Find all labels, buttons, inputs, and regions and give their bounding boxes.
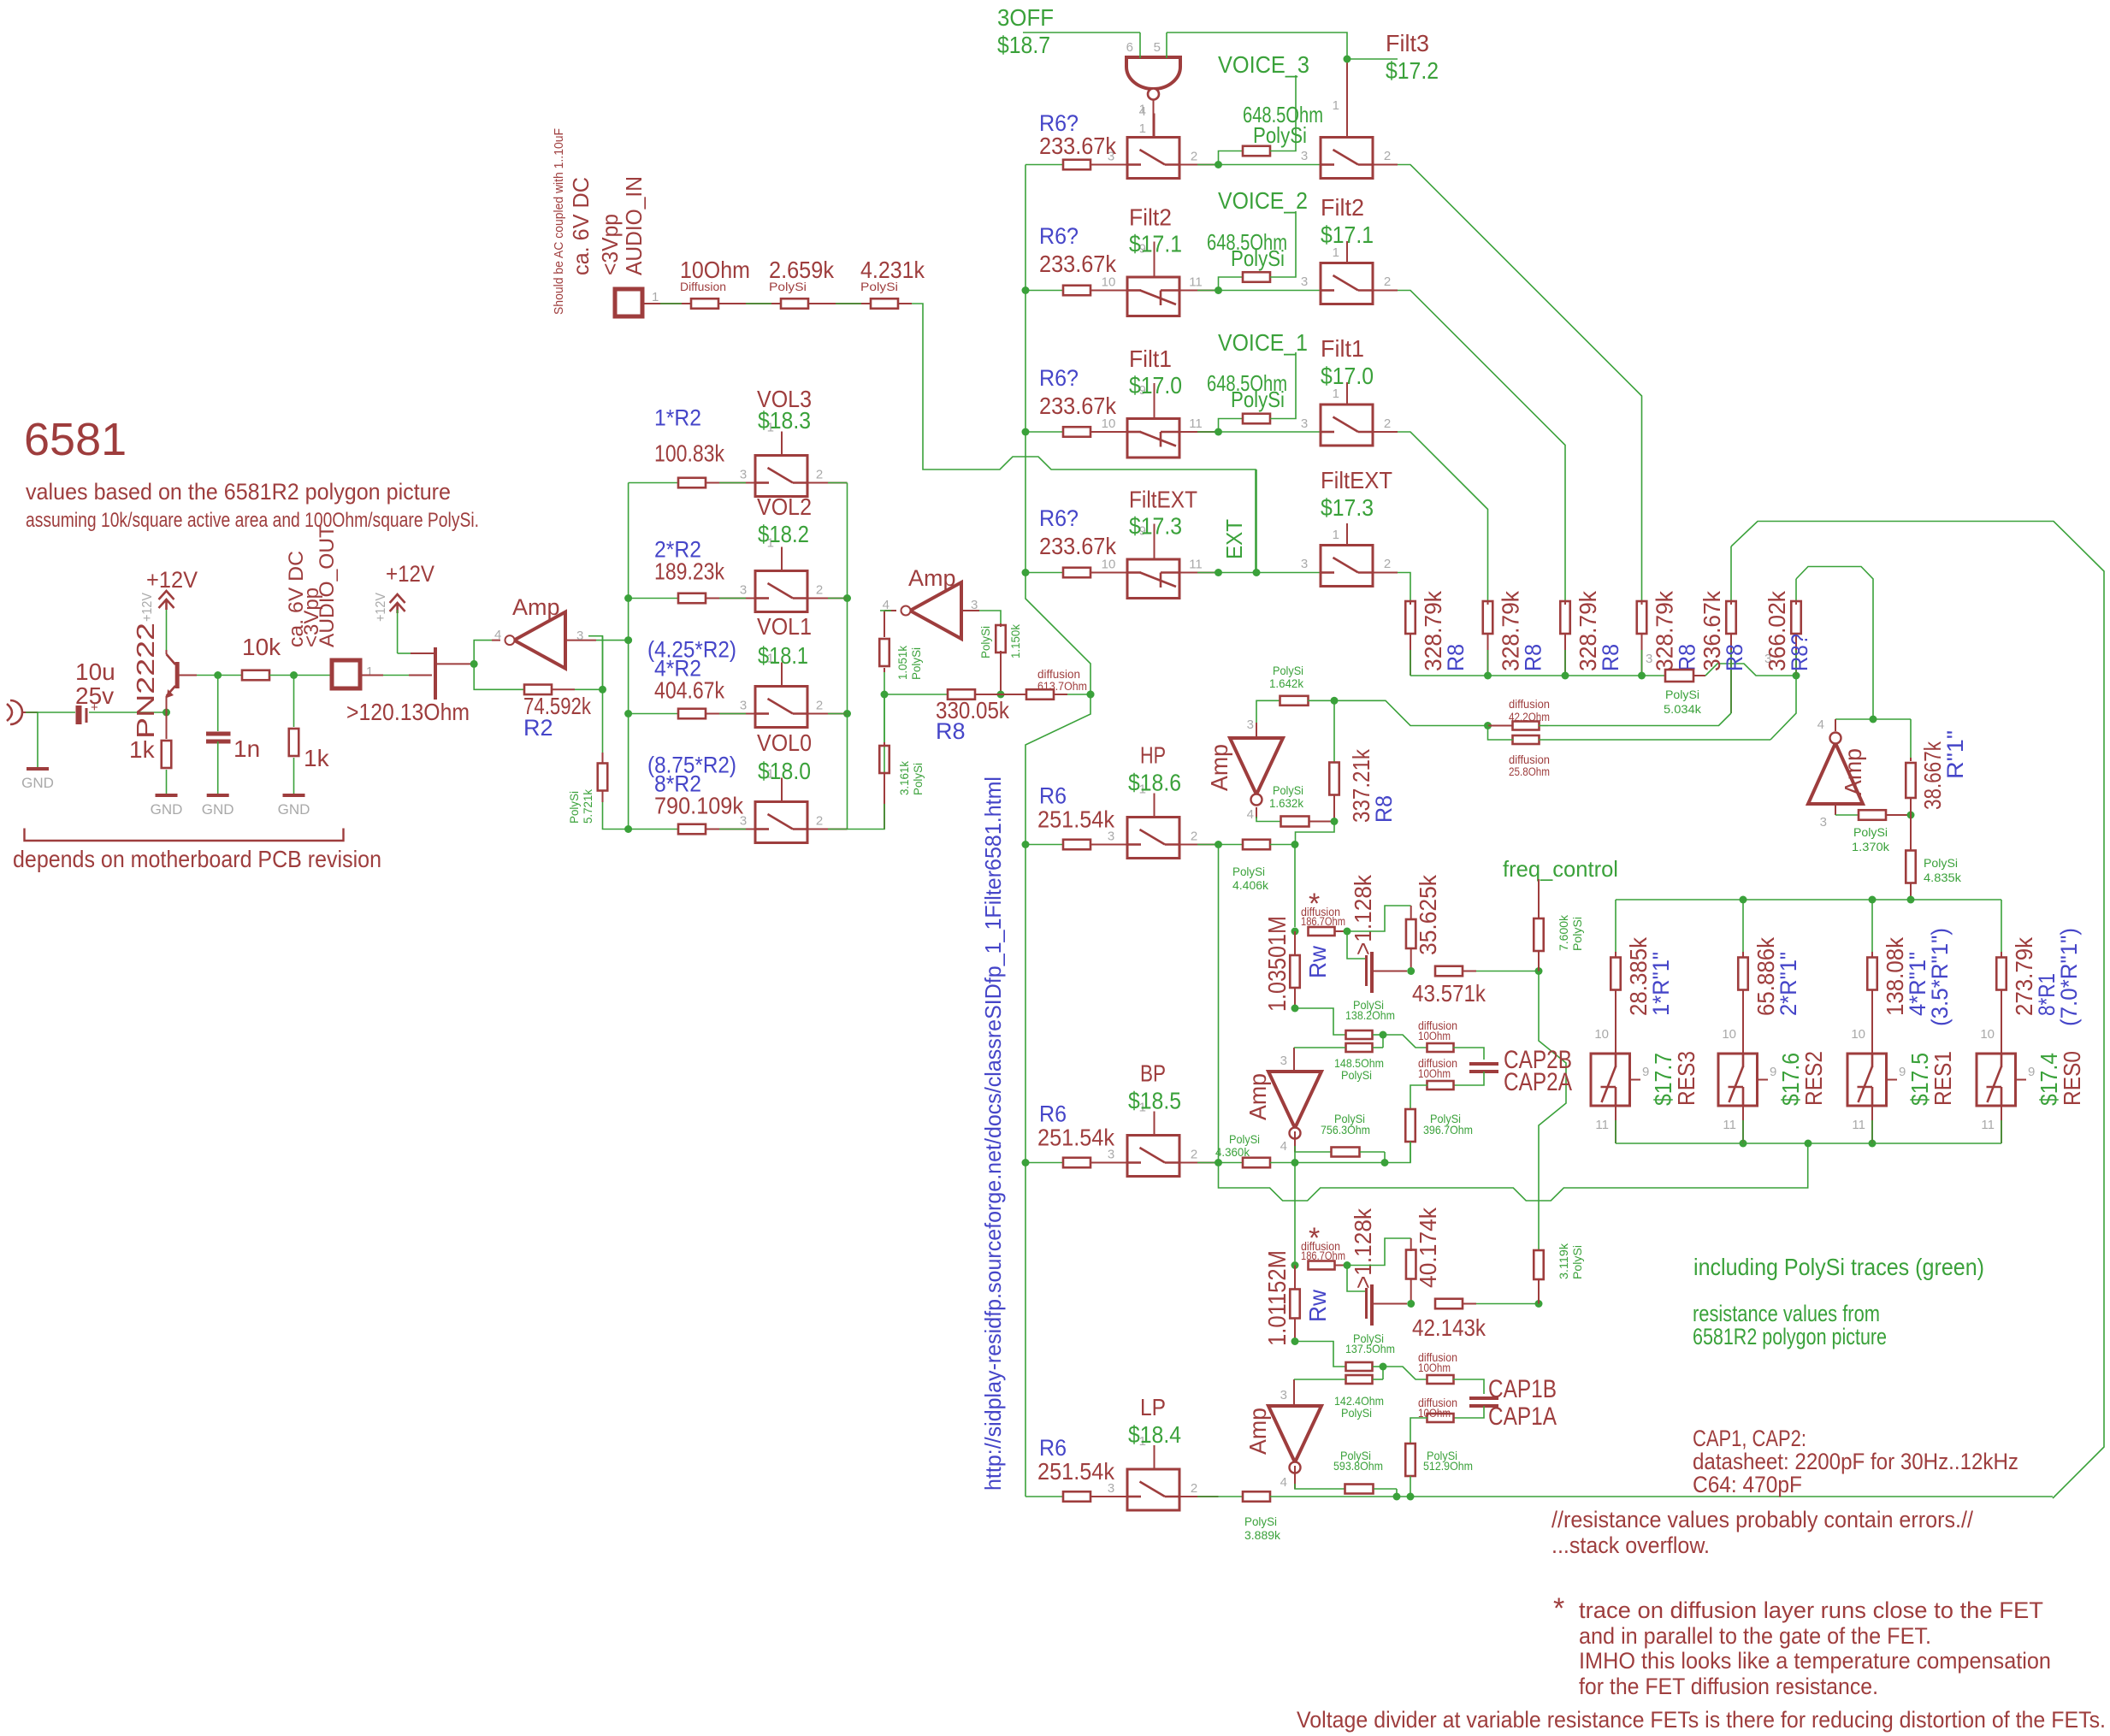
svg-text:$17.3: $17.3 xyxy=(1321,494,1374,521)
svg-text:3: 3 xyxy=(1301,275,1308,289)
svg-text:PolySi: PolySi xyxy=(1253,122,1307,148)
svg-text:Amp: Amp xyxy=(1244,1073,1271,1120)
svg-text:PolySi: PolySi xyxy=(1341,1068,1372,1082)
svg-text:2*R"1": 2*R"1" xyxy=(1776,952,1801,1016)
svg-text:1: 1 xyxy=(652,290,659,304)
svg-text:10Ohm: 10Ohm xyxy=(680,257,750,283)
svg-text:Amp: Amp xyxy=(1244,1408,1271,1455)
svg-text:R6?: R6? xyxy=(1039,505,1079,531)
svg-text:25.8Ohm: 25.8Ohm xyxy=(1509,765,1550,778)
svg-text:9: 9 xyxy=(1642,1065,1649,1079)
svg-text:5.721k: 5.721k xyxy=(581,788,594,824)
svg-text:3: 3 xyxy=(1301,416,1308,431)
svg-text:PN2222: PN2222 xyxy=(133,623,160,739)
svg-text:$17.0: $17.0 xyxy=(1129,372,1182,399)
svg-text:PolySi: PolySi xyxy=(1570,1245,1584,1279)
svg-text:10Ohm: 10Ohm xyxy=(1418,1067,1451,1080)
svg-text:2: 2 xyxy=(816,583,823,598)
svg-text:9: 9 xyxy=(1899,1065,1906,1079)
svg-text:values based on the 6581R2 pol: values based on the 6581R2 polygon pictu… xyxy=(26,479,451,505)
svg-text:R8?: R8? xyxy=(1787,634,1812,671)
svg-text:trace on diffusion layer runs: trace on diffusion layer runs close to t… xyxy=(1579,1597,2043,1623)
svg-text:$18.6: $18.6 xyxy=(1128,770,1181,796)
svg-text:3.119k: 3.119k xyxy=(1557,1243,1570,1279)
svg-text:GND: GND xyxy=(21,775,54,791)
svg-text:including PolySi traces (green: including PolySi traces (green) xyxy=(1693,1254,1984,1280)
svg-text:$17.0: $17.0 xyxy=(1321,363,1374,389)
svg-text:10: 10 xyxy=(1980,1027,1995,1042)
svg-text:2: 2 xyxy=(816,814,823,829)
svg-text:4: 4 xyxy=(883,598,890,612)
svg-text:AUDIO_OUT: AUDIO_OUT xyxy=(316,525,339,647)
svg-text:1.632k: 1.632k xyxy=(1269,796,1304,810)
svg-text:$18.5: $18.5 xyxy=(1128,1088,1181,1114)
svg-text:R8: R8 xyxy=(1521,644,1546,671)
svg-text:138.2Ohm: 138.2Ohm xyxy=(1345,1008,1395,1022)
svg-text:PolySi: PolySi xyxy=(1244,1515,1277,1528)
svg-text:PolySi: PolySi xyxy=(1570,917,1584,951)
svg-text:11: 11 xyxy=(1189,275,1203,290)
svg-text:R6?: R6? xyxy=(1039,365,1079,391)
svg-text:233.67k: 233.67k xyxy=(1039,133,1117,159)
svg-text:RES2: RES2 xyxy=(1800,1051,1827,1106)
svg-text:and in parallel to the gate of: and in parallel to the gate of the FET. xyxy=(1579,1623,1931,1649)
svg-text:datasheet: 2200pF for 30Hz..12: datasheet: 2200pF for 30Hz..12kHz xyxy=(1693,1449,2018,1474)
svg-text:3: 3 xyxy=(740,583,747,598)
svg-text:42.143k: 42.143k xyxy=(1412,1314,1486,1341)
svg-text:233.67k: 233.67k xyxy=(1039,533,1117,559)
svg-text:depends on motherboard PCB rev: depends on motherboard PCB revision xyxy=(13,846,381,872)
svg-text:PolySi: PolySi xyxy=(911,763,925,795)
svg-text:LP: LP xyxy=(1140,1394,1166,1420)
svg-text:3: 3 xyxy=(971,598,978,612)
svg-text:1: 1 xyxy=(366,664,373,679)
svg-text:Filt3: Filt3 xyxy=(1386,30,1429,56)
svg-text:Filt1: Filt1 xyxy=(1321,335,1364,362)
svg-text:R6: R6 xyxy=(1039,1435,1067,1461)
svg-text:PolySi: PolySi xyxy=(1273,783,1303,797)
svg-text:IMHO this looks like a tempera: IMHO this looks like a temperature compe… xyxy=(1579,1648,2051,1674)
svg-text:CAP1A: CAP1A xyxy=(1488,1402,1557,1431)
svg-text:11: 11 xyxy=(1189,558,1203,572)
svg-text:3: 3 xyxy=(1280,1388,1287,1402)
svg-text:2: 2 xyxy=(816,468,823,482)
svg-text:1: 1 xyxy=(1139,121,1146,136)
svg-text:4.360k: 4.360k xyxy=(1215,1145,1250,1159)
svg-text:2: 2 xyxy=(1191,830,1197,844)
svg-text:$17.3: $17.3 xyxy=(1129,513,1182,540)
svg-text:3: 3 xyxy=(740,468,747,482)
svg-text:$18.1: $18.1 xyxy=(758,642,808,669)
svg-text:+12V: +12V xyxy=(146,567,198,593)
svg-text:(3.5*R"1"): (3.5*R"1") xyxy=(1927,928,1953,1026)
svg-text:*: * xyxy=(1553,1592,1564,1625)
svg-text:5: 5 xyxy=(1154,40,1161,55)
svg-text:3OFF: 3OFF xyxy=(997,4,1054,31)
svg-text:PolySi: PolySi xyxy=(1232,865,1265,878)
svg-text:$17.1: $17.1 xyxy=(1129,231,1182,257)
svg-text:40.174k: 40.174k xyxy=(1415,1207,1441,1288)
svg-text:2: 2 xyxy=(1384,149,1391,163)
svg-text:$18.3: $18.3 xyxy=(758,407,811,434)
svg-text:1.370k: 1.370k xyxy=(1852,840,1890,853)
svg-text:2: 2 xyxy=(1191,150,1197,164)
svg-text:10: 10 xyxy=(1594,1027,1609,1042)
svg-text:2.659k: 2.659k xyxy=(769,257,835,283)
svg-text:diffusion: diffusion xyxy=(1037,668,1080,681)
svg-text:R6: R6 xyxy=(1039,783,1067,809)
svg-text:3: 3 xyxy=(1280,1054,1287,1068)
svg-text:R8: R8 xyxy=(936,718,966,744)
svg-text:9: 9 xyxy=(1770,1065,1776,1079)
svg-text:1.051k: 1.051k xyxy=(895,645,909,680)
svg-text:FiltEXT: FiltEXT xyxy=(1321,467,1392,493)
svg-text:Amp: Amp xyxy=(512,594,560,620)
svg-text:>120.13Ohm: >120.13Ohm xyxy=(346,699,470,725)
svg-text:CAP2A: CAP2A xyxy=(1504,1068,1572,1096)
svg-text:2: 2 xyxy=(1191,1148,1197,1162)
svg-text:R6?: R6? xyxy=(1039,223,1079,249)
svg-text:Filt1: Filt1 xyxy=(1129,345,1172,372)
svg-text:1n: 1n xyxy=(233,735,260,762)
svg-text:GND: GND xyxy=(202,801,234,818)
svg-text:251.54k: 251.54k xyxy=(1037,806,1115,833)
svg-text:+12V: +12V xyxy=(140,593,155,622)
svg-text:1: 1 xyxy=(1333,98,1339,113)
svg-text:R8: R8 xyxy=(1598,644,1623,671)
svg-text:6581: 6581 xyxy=(24,414,127,465)
svg-text:$18.4: $18.4 xyxy=(1128,1421,1181,1448)
svg-text:10Ohm: 10Ohm xyxy=(1418,1361,1451,1374)
svg-text:$17.2: $17.2 xyxy=(1386,57,1439,84)
svg-text:Filt2: Filt2 xyxy=(1129,204,1172,231)
svg-text:(8.75*R2): (8.75*R2) xyxy=(647,753,736,778)
svg-text:VOICE_1: VOICE_1 xyxy=(1218,329,1308,356)
svg-text:233.67k: 233.67k xyxy=(1039,393,1117,419)
svg-text:BP: BP xyxy=(1140,1060,1166,1087)
svg-text:4: 4 xyxy=(1280,1475,1287,1490)
svg-text:9: 9 xyxy=(2028,1065,2035,1079)
svg-text:Amp: Amp xyxy=(908,565,956,591)
svg-text:3: 3 xyxy=(1820,815,1827,830)
svg-text:PolySi: PolySi xyxy=(978,626,992,658)
svg-text:RES3: RES3 xyxy=(1673,1051,1699,1106)
svg-text:diffusion: diffusion xyxy=(1509,698,1550,711)
svg-text:>1.128k: >1.128k xyxy=(1350,1208,1376,1289)
svg-text:6581R2 polygon picture: 6581R2 polygon picture xyxy=(1693,1324,1887,1349)
svg-text:<3Vpp: <3Vpp xyxy=(597,214,623,275)
svg-text:GND: GND xyxy=(278,801,310,818)
svg-text:1: 1 xyxy=(1333,528,1339,542)
svg-text:CAP1, CAP2:: CAP1, CAP2: xyxy=(1693,1426,1806,1451)
svg-text:FiltEXT: FiltEXT xyxy=(1129,487,1197,513)
svg-text:1.642k: 1.642k xyxy=(1269,676,1304,690)
svg-text:Rw: Rw xyxy=(1304,1289,1331,1322)
svg-text:593.8Ohm: 593.8Ohm xyxy=(1333,1459,1383,1473)
svg-text:ca. 6V DC: ca. 6V DC xyxy=(568,177,594,275)
svg-text:R8: R8 xyxy=(1443,644,1469,671)
svg-text:25v: 25v xyxy=(75,682,114,709)
svg-text:4: 4 xyxy=(494,628,501,642)
svg-text:1*R"1": 1*R"1" xyxy=(1648,952,1674,1016)
svg-text:3: 3 xyxy=(1301,557,1308,571)
svg-text:11: 11 xyxy=(1189,416,1203,431)
svg-text:$18.2: $18.2 xyxy=(758,521,809,547)
svg-text:R"1": R"1" xyxy=(1942,730,1968,779)
svg-text:+12V: +12V xyxy=(386,561,434,587)
svg-text:R8: R8 xyxy=(1371,795,1397,823)
svg-text:10: 10 xyxy=(1722,1027,1736,1042)
svg-text:6: 6 xyxy=(1126,40,1133,55)
svg-text:Should be AC coupled with 1..1: Should be AC coupled with 1..10uF xyxy=(552,128,566,315)
svg-text:251.54k: 251.54k xyxy=(1037,1458,1115,1485)
svg-text:Diffusion: Diffusion xyxy=(680,280,726,293)
svg-text:VOL0: VOL0 xyxy=(757,729,812,756)
svg-text:PolySi: PolySi xyxy=(1924,856,1958,870)
svg-text:Filt2: Filt2 xyxy=(1321,194,1364,221)
svg-text:2: 2 xyxy=(1384,416,1391,431)
svg-text:35.625k: 35.625k xyxy=(1415,874,1441,955)
svg-text:11: 11 xyxy=(1723,1118,1736,1132)
svg-text:2: 2 xyxy=(1191,1481,1197,1496)
svg-text:EXT: EXT xyxy=(1221,519,1247,559)
svg-text:4.406k: 4.406k xyxy=(1232,878,1269,892)
svg-text:10Ohm: 10Ohm xyxy=(1418,1030,1451,1042)
svg-text:PolySi: PolySi xyxy=(1231,245,1285,271)
svg-text:4: 4 xyxy=(1139,104,1146,119)
svg-text:11: 11 xyxy=(1595,1118,1609,1132)
svg-text:3: 3 xyxy=(1301,149,1308,163)
svg-text:4: 4 xyxy=(1280,1139,1287,1154)
svg-text:VOL2: VOL2 xyxy=(757,493,812,520)
svg-text:4.231k: 4.231k xyxy=(860,257,925,283)
svg-text:5.034k: 5.034k xyxy=(1664,702,1702,716)
svg-text:1*R2: 1*R2 xyxy=(654,405,701,431)
svg-text:396.7Ohm: 396.7Ohm xyxy=(1423,1123,1473,1137)
svg-text:2: 2 xyxy=(816,699,823,713)
svg-text:R6: R6 xyxy=(1039,1101,1067,1127)
svg-text:R2: R2 xyxy=(523,715,553,741)
svg-text:11: 11 xyxy=(1981,1118,1995,1132)
svg-text:3: 3 xyxy=(1247,717,1254,732)
svg-text:PolySi: PolySi xyxy=(909,647,923,680)
svg-text:diffusion: diffusion xyxy=(1509,753,1550,766)
svg-text:4: 4 xyxy=(1817,717,1824,732)
svg-text:43.571k: 43.571k xyxy=(1412,980,1486,1007)
svg-text:PolySi: PolySi xyxy=(1231,387,1285,412)
svg-text:AUDIO_IN: AUDIO_IN xyxy=(621,176,647,275)
svg-text:2: 2 xyxy=(1384,557,1391,571)
svg-text:10: 10 xyxy=(1851,1027,1865,1042)
svg-text:resistance values from: resistance values from xyxy=(1693,1301,1880,1326)
svg-text:+12V: +12V xyxy=(374,593,388,622)
svg-text:$18.7: $18.7 xyxy=(997,32,1050,58)
svg-text:GND: GND xyxy=(151,801,183,818)
svg-text:1.01152M: 1.01152M xyxy=(1264,1250,1291,1346)
svg-text:3: 3 xyxy=(740,699,747,713)
svg-text:3.889k: 3.889k xyxy=(1244,1528,1281,1542)
svg-text:512.9Ohm: 512.9Ohm xyxy=(1423,1459,1473,1473)
svg-text:R8: R8 xyxy=(1675,644,1700,671)
svg-text:Voltage divider at variable re: Voltage divider at variable resistance F… xyxy=(1297,1707,2106,1733)
svg-text:RES0: RES0 xyxy=(2059,1051,2085,1106)
svg-text:PolySi: PolySi xyxy=(1665,688,1699,701)
svg-text:...stack overflow.: ...stack overflow. xyxy=(1551,1532,1710,1558)
svg-text:3: 3 xyxy=(576,629,583,643)
svg-text:$17.1: $17.1 xyxy=(1321,221,1374,248)
svg-text:Amp: Amp xyxy=(1206,744,1232,791)
svg-text:PolySi: PolySi xyxy=(860,280,898,293)
svg-text:CAP1B: CAP1B xyxy=(1488,1375,1557,1403)
svg-text:137.5Ohm: 137.5Ohm xyxy=(1345,1342,1395,1355)
svg-text:2*R2: 2*R2 xyxy=(654,537,701,563)
svg-text:freq_control: freq_control xyxy=(1503,856,1618,882)
svg-text:1.150k: 1.150k xyxy=(1008,623,1022,658)
svg-text:PolySi: PolySi xyxy=(769,280,807,293)
svg-text:42.2Ohm: 42.2Ohm xyxy=(1509,711,1550,723)
svg-text:http://sidplay-residfp.sourcef: http://sidplay-residfp.sourceforge.net/d… xyxy=(980,776,1006,1491)
svg-text:2: 2 xyxy=(1384,275,1391,289)
svg-text:Amp: Amp xyxy=(1840,748,1866,795)
svg-text:10k: 10k xyxy=(242,634,281,660)
svg-text:VOICE_2: VOICE_2 xyxy=(1218,187,1308,214)
svg-text:756.3Ohm: 756.3Ohm xyxy=(1321,1123,1370,1137)
svg-text:C64: 470pF: C64: 470pF xyxy=(1693,1472,1802,1497)
svg-text:613.7Ohm: 613.7Ohm xyxy=(1037,680,1087,693)
svg-text:PolySi: PolySi xyxy=(1853,825,1888,839)
svg-text:PolySi: PolySi xyxy=(567,791,581,824)
svg-text:PolySi: PolySi xyxy=(1341,1406,1372,1420)
svg-text:(7.0*R"1"): (7.0*R"1") xyxy=(2056,928,2082,1026)
svg-text:Rw: Rw xyxy=(1304,945,1331,978)
svg-text:>1.128k: >1.128k xyxy=(1350,874,1376,955)
svg-text:10: 10 xyxy=(1102,275,1116,290)
svg-text:251.54k: 251.54k xyxy=(1037,1125,1115,1151)
svg-text:for the FET diffusion resistan: for the FET diffusion resistance. xyxy=(1579,1674,1878,1699)
svg-text:RES1: RES1 xyxy=(1930,1051,1956,1106)
svg-text:4: 4 xyxy=(1247,807,1254,822)
svg-text://resistance values probably c: //resistance values probably contain err… xyxy=(1551,1507,1973,1532)
svg-text:PolySi: PolySi xyxy=(1229,1132,1260,1146)
svg-text:1.03501M: 1.03501M xyxy=(1264,916,1291,1012)
svg-text:3: 3 xyxy=(1646,652,1652,666)
svg-text:PolySi: PolySi xyxy=(1273,664,1303,677)
svg-text:1k: 1k xyxy=(304,745,330,771)
svg-text:VOL1: VOL1 xyxy=(757,613,812,640)
svg-text:(4.25*R2): (4.25*R2) xyxy=(647,637,736,663)
svg-text:233.67k: 233.67k xyxy=(1039,251,1117,277)
svg-text:4.835k: 4.835k xyxy=(1924,871,1962,884)
svg-text:1k: 1k xyxy=(129,736,156,763)
svg-text:assuming 10k/square active are: assuming 10k/square active area and 100O… xyxy=(26,509,479,532)
svg-text:3.161k: 3.161k xyxy=(897,760,911,795)
svg-text:7.600k: 7.600k xyxy=(1557,914,1570,951)
svg-text:HP: HP xyxy=(1140,742,1166,769)
svg-text:11: 11 xyxy=(1852,1118,1865,1132)
svg-text:10: 10 xyxy=(1102,558,1116,572)
svg-text:$18.0: $18.0 xyxy=(758,758,811,784)
svg-text:R8: R8 xyxy=(1722,644,1747,671)
svg-text:100.83k: 100.83k xyxy=(654,440,725,467)
svg-text:10u: 10u xyxy=(75,658,115,685)
svg-text:VOICE_3: VOICE_3 xyxy=(1218,51,1309,78)
